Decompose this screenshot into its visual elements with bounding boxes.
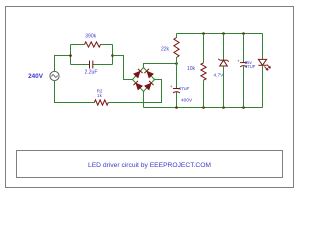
svg-text:10k: 10k: [187, 66, 196, 72]
svg-text:1k: 1k: [97, 93, 102, 98]
svg-text:47uF: 47uF: [179, 86, 190, 92]
svg-text:4.7V: 4.7V: [213, 72, 224, 78]
svg-text:240V: 240V: [28, 73, 44, 80]
svg-text:22k: 22k: [161, 47, 170, 53]
svg-text:47UF: 47UF: [245, 64, 256, 69]
svg-text:LED driver circuit by EEEPROJE: LED driver circuit by EEEPROJECT.COM: [88, 162, 211, 169]
svg-text:400V: 400V: [181, 98, 193, 104]
svg-text:390k: 390k: [85, 33, 96, 39]
svg-text:+: +: [237, 58, 240, 63]
svg-text:2.2uF: 2.2uF: [85, 70, 98, 76]
svg-text:+: +: [170, 84, 173, 89]
